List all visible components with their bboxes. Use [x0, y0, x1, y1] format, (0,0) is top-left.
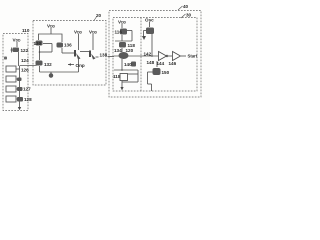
svg-text:150: 150 — [162, 70, 170, 75]
svg-text:136: 136 — [64, 43, 72, 48]
svg-text:134: 134 — [114, 48, 122, 53]
svg-text:VDD: VDD — [89, 30, 98, 35]
svg-text:VDD: VDD — [47, 24, 56, 29]
svg-text:146: 146 — [169, 61, 177, 66]
svg-text:130: 130 — [34, 41, 42, 46]
svg-text:132: 132 — [44, 62, 52, 67]
svg-text:Start: Start — [188, 54, 198, 59]
svg-text:Osc: Osc — [145, 18, 154, 23]
svg-text:110: 110 — [22, 28, 30, 33]
svg-text:116: 116 — [115, 30, 123, 35]
svg-text:VDD: VDD — [118, 20, 127, 25]
svg-text:144: 144 — [157, 61, 165, 66]
svg-text:40: 40 — [183, 4, 189, 9]
svg-text:118: 118 — [113, 74, 121, 79]
svg-text:126: 126 — [21, 68, 29, 73]
svg-text:120: 120 — [126, 48, 134, 53]
svg-text:122: 122 — [21, 48, 29, 53]
svg-text:148: 148 — [147, 60, 155, 65]
svg-text:127: 127 — [23, 87, 31, 92]
svg-text:138: 138 — [100, 53, 108, 58]
svg-text:30: 30 — [186, 13, 192, 18]
svg-text:128: 128 — [24, 97, 32, 102]
svg-text:124: 124 — [21, 58, 29, 63]
svg-text:VDD: VDD — [74, 30, 83, 35]
svg-text:Onp: Onp — [76, 63, 85, 68]
svg-text:140: 140 — [124, 62, 132, 67]
svg-text:VDD: VDD — [13, 38, 22, 43]
svg-text:20: 20 — [96, 13, 102, 18]
svg-text:142: 142 — [144, 52, 152, 57]
